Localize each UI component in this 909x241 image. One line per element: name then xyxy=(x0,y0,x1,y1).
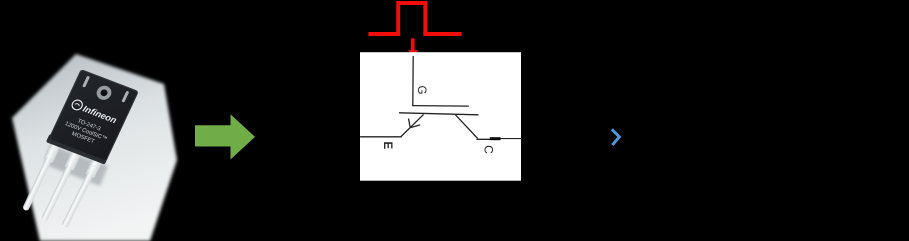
mounting hole xyxy=(94,84,114,102)
package drop shadow on photo background xyxy=(44,145,108,186)
package bottom side face xyxy=(46,134,109,165)
emitter arrowhead xyxy=(409,119,420,128)
emitter diagonal xyxy=(401,115,423,137)
svg-text:G: G xyxy=(415,86,427,95)
leg 1 xyxy=(20,138,62,212)
red gate pulse waveform xyxy=(368,3,461,34)
photo light background quad xyxy=(12,54,177,241)
MOSFET package body group xyxy=(46,69,139,165)
collector lead thin right xyxy=(501,138,522,140)
red arrow into box xyxy=(411,38,415,50)
leg 3 xyxy=(59,153,104,229)
right slot xyxy=(121,91,129,103)
package label text xyxy=(61,115,111,149)
collector diagonal xyxy=(456,115,477,138)
IGBT sketch xyxy=(361,57,522,140)
blue chevron xyxy=(613,130,619,144)
svg-text:C: C xyxy=(481,145,495,154)
left slot xyxy=(82,76,90,88)
Infineon logo xyxy=(70,99,119,126)
emitter lead horizontal xyxy=(361,136,402,138)
collector thick bar xyxy=(490,137,501,140)
channel bar xyxy=(400,113,479,115)
collector lead horizontal xyxy=(477,138,490,140)
package body xyxy=(48,69,139,162)
svg-text:E: E xyxy=(381,142,393,150)
gate bar xyxy=(413,105,469,108)
green arrow xyxy=(195,114,255,159)
leg 2 xyxy=(40,146,84,222)
white schematic box xyxy=(360,52,521,181)
gate lead vertical xyxy=(412,57,414,106)
